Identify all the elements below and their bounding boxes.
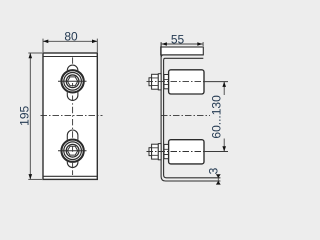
top bolt flange circle xyxy=(64,73,82,91)
top bar (bracket head) xyxy=(161,47,204,55)
dimension 55: line xyxy=(161,43,203,45)
bottom bolt flange circle xyxy=(64,142,82,160)
dimension 60...130: top arrow xyxy=(222,82,226,87)
upper washer at web xyxy=(158,74,161,90)
upper nut xyxy=(152,74,159,89)
dimension 55: right extension xyxy=(202,42,204,46)
dimension 80: extension line right xyxy=(96,39,98,52)
side mid centerline xyxy=(161,115,210,117)
dimension 55: left arrow xyxy=(162,42,167,46)
dimension 3: top arrow xyxy=(216,174,221,178)
svg-text:60...130: 60...130 xyxy=(210,95,224,139)
dimension 60...130: line upper segment xyxy=(223,82,225,95)
bottom slot xyxy=(67,130,78,168)
bottom bolt head circle xyxy=(66,144,79,157)
dimension 3: bottom arrow xyxy=(216,181,221,185)
lower bolt end cap xyxy=(149,148,152,156)
top bolt washer disc xyxy=(60,69,84,93)
top bolt hex xyxy=(67,77,77,86)
bottom bolt hex xyxy=(67,146,77,155)
upper shaft lines xyxy=(164,79,168,84)
dimension 3: vertical line xyxy=(217,175,219,185)
plate top bend line xyxy=(43,56,97,58)
lower shaft lines xyxy=(164,149,168,154)
dimension 80: right arrow xyxy=(92,40,97,44)
dimension 80: left arrow xyxy=(43,40,48,44)
dimension 80: extension line left xyxy=(42,39,44,52)
dimension 195: extension line bottom xyxy=(28,178,42,180)
top bolt washer outer circle xyxy=(61,70,83,92)
svg-text:195: 195 xyxy=(18,105,32,125)
dimension 195: top arrow xyxy=(29,53,33,58)
dimension 55: right arrow xyxy=(197,42,202,46)
dimension 60...130: bottom arrow xyxy=(222,146,226,151)
upper axis centerline xyxy=(147,81,204,83)
dimension 195: extension line top xyxy=(28,52,42,54)
svg-text:55: 55 xyxy=(171,33,185,47)
svg-text:80: 80 xyxy=(64,29,78,43)
lower nut facet lines xyxy=(152,148,158,156)
bottom bolt horizontal centerline xyxy=(58,150,87,152)
dimension 55: left extension xyxy=(160,42,162,46)
upper spacer washer xyxy=(164,75,169,89)
dimension 195: bottom arrow xyxy=(29,174,33,179)
lower axis centerline xyxy=(147,151,204,153)
horizontal mid centerline (left view) xyxy=(41,115,103,117)
web inner line xyxy=(164,60,221,178)
dimension 60...130: line lower segment xyxy=(223,139,225,152)
top slot xyxy=(67,65,78,100)
svg-text:3: 3 xyxy=(207,167,221,174)
upper bolt end cap xyxy=(149,78,152,86)
bottom bolt washer disc xyxy=(60,139,84,163)
top bolt horizontal centerline xyxy=(58,80,87,82)
dimension 195: line xyxy=(29,53,31,179)
upper cylinder xyxy=(169,70,204,94)
lower nut xyxy=(152,144,159,159)
sheet flange under bar xyxy=(161,55,203,60)
bottom bolt washer outer circle xyxy=(61,140,83,162)
lower cylinder xyxy=(169,140,204,164)
web outer line xyxy=(161,43,220,181)
lower spacer washer xyxy=(164,144,169,158)
upper nut facet lines xyxy=(152,78,158,86)
top bolt head circle xyxy=(66,75,79,88)
plate body xyxy=(43,53,97,179)
plate bottom bend line xyxy=(43,175,97,177)
dimension 80: line xyxy=(43,40,97,42)
lower washer at web xyxy=(158,144,161,160)
vertical centerline (segmented dash-dot) xyxy=(72,57,74,175)
